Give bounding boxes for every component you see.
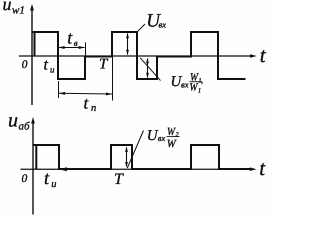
svg-text:w1: w1	[12, 4, 25, 16]
svg-text:t: t	[67, 28, 73, 48]
svg-text:t: t	[44, 169, 50, 189]
callout diagonal U_vx W1/W1'	[140, 58, 160, 81]
svg-text:t: t	[44, 57, 49, 74]
svg-text:W: W	[167, 138, 177, 150]
arrow amplitude inside pulse2 bottom	[126, 148, 128, 167]
arrow amplitude negative pulse2	[147, 59, 149, 78]
dimension t_p left arrowhead	[59, 92, 65, 95]
svg-text:t: t	[259, 156, 266, 180]
svg-text:u: u	[50, 65, 55, 75]
svg-text:T: T	[114, 171, 124, 188]
axis t horizontal (bottom plot)	[21, 168, 252, 170]
svg-text:вх: вх	[181, 79, 189, 89]
svg-text:0: 0	[22, 59, 28, 71]
arrow amplitude U_vx inside pulse2	[127, 34, 129, 55]
wire rising edge pulse1 top	[34, 32, 36, 56]
dimension t_v left arrowhead	[58, 46, 64, 49]
svg-text:аб: аб	[19, 120, 31, 132]
svg-text:u: u	[51, 179, 56, 190]
svg-text:′: ′	[201, 80, 204, 90]
dimension t_p right extension	[112, 57, 114, 101]
svg-text:t: t	[84, 94, 90, 113]
axis u_w1 vertical	[31, 8, 33, 106]
callout line U_vx	[137, 24, 145, 32]
svg-text:в: в	[74, 38, 78, 48]
svg-text:t: t	[260, 43, 267, 67]
dimension t_v right arrowhead	[79, 46, 85, 49]
svg-text:вх: вх	[158, 133, 166, 143]
wire waveform u_ab	[33, 145, 250, 169]
axis arrowhead up (bottom plot)	[31, 117, 35, 124]
axis arrowhead up (top plot)	[30, 4, 34, 11]
dimension t_p left extension	[58, 81, 60, 98]
axis u_ab vertical	[32, 121, 34, 215]
wire waveform u_w1	[32, 32, 246, 79]
svg-text:п: п	[91, 103, 96, 114]
svg-text:вх: вх	[159, 19, 167, 29]
wire rising edge pulse1 bottom	[35, 145, 37, 169]
callout diagonal U_vx W2/W1	[127, 131, 143, 169]
axis arrowhead right (bottom plot)	[250, 167, 257, 171]
axis arrowhead right (top plot)	[250, 54, 257, 58]
svg-text:2: 2	[175, 132, 179, 139]
dimension t_v line	[59, 47, 85, 49]
svg-text:T: T	[99, 57, 109, 73]
dimension t_u arrowhead on axis	[59, 167, 67, 171]
svg-text:0: 0	[22, 173, 28, 185]
dimension t_p line	[59, 92, 113, 95]
svg-text:u: u	[8, 110, 18, 132]
node tick at end of recovery interval	[85, 42, 87, 60]
svg-text:u: u	[3, 0, 12, 14]
axis t horizontal (top plot)	[19, 55, 252, 57]
dimension t_p right arrowhead	[106, 93, 112, 96]
